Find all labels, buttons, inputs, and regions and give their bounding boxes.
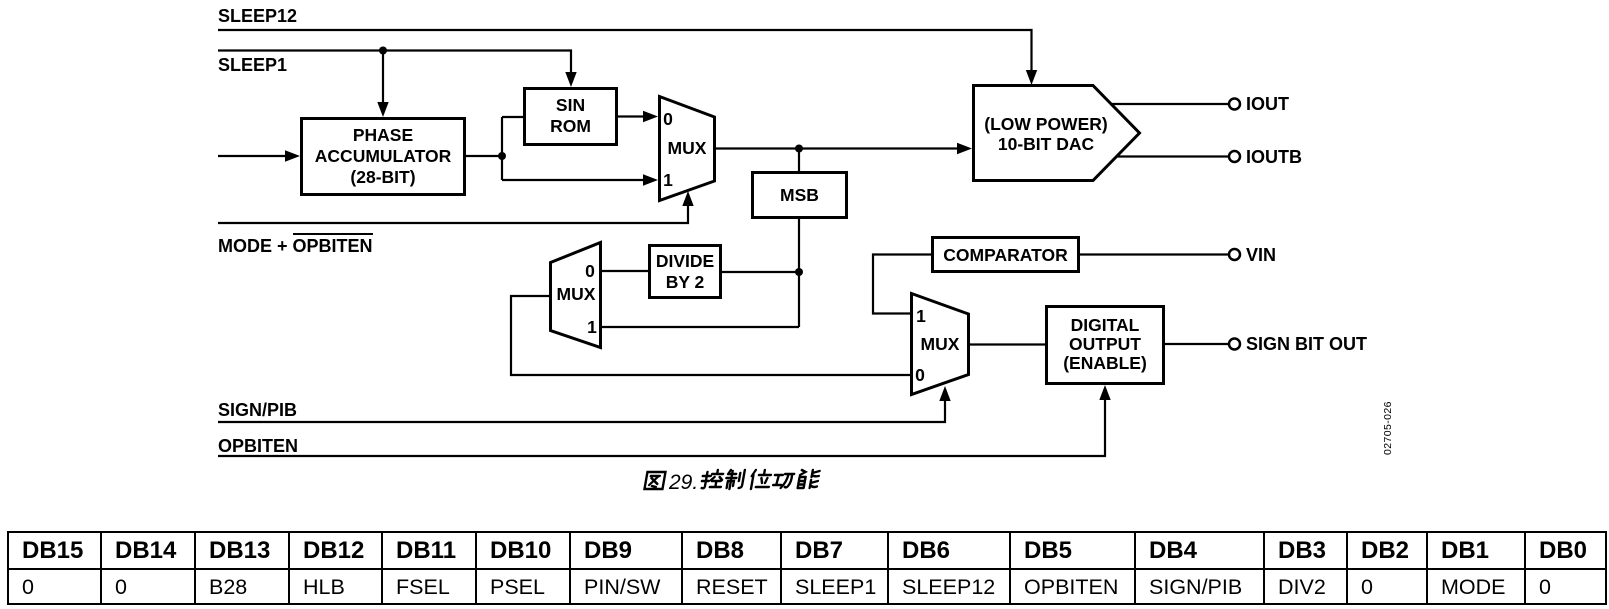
svg-text:MUX: MUX [668, 138, 707, 158]
wire bypass branch to MUX U1 input 1 [502, 179, 645, 181]
svg-text:1: 1 [663, 170, 673, 190]
terminal IOUTB [1229, 151, 1240, 162]
svg-text:SIGN/PIB: SIGN/PIB [218, 400, 297, 420]
svg-text:DIVIDE: DIVIDE [656, 251, 714, 271]
wire SLEEP12 net [218, 30, 1032, 72]
svg-text:0: 0 [663, 109, 673, 129]
svg-text:COMPARATOR: COMPARATOR [943, 245, 1068, 265]
DAC block U9 pentagon [974, 86, 1140, 181]
wire frequency-word input to phase accumulator [218, 155, 287, 157]
wire MUX U3 output to digital output block [969, 343, 1045, 345]
overline bar over OPBITEN [293, 233, 373, 235]
arrowhead into SIN ROM top [565, 72, 576, 87]
node junction on SLEEP1 net [379, 47, 387, 55]
op-amp U1 MUX trapezoid [660, 97, 715, 201]
digital output block U8 [1047, 307, 1164, 384]
wire MUX U2 output down to MUX U3 input 0 [511, 296, 910, 375]
svg-text:OUTPUT: OUTPUT [1069, 334, 1141, 354]
wire digital output to SIGN BIT OUT terminal [1164, 343, 1229, 345]
svg-text:ACCUMULATOR: ACCUMULATOR [315, 146, 452, 166]
arrowhead into phase accumulator top [377, 102, 388, 117]
MUX U3 trapezoid [912, 294, 969, 395]
MUX U2 trapezoid (mirrored) [551, 243, 601, 348]
svg-text:MUX: MUX [921, 334, 960, 354]
control word bit table [7, 531, 1607, 605]
arrowhead into phase accumulator left [285, 150, 300, 161]
wire phase accumulator output to junction [465, 155, 502, 157]
arrowhead into MUX U3 select [939, 386, 950, 401]
svg-text:02705-026: 02705-026 [1382, 401, 1394, 455]
terminal SIGN BIT OUT [1229, 339, 1240, 350]
wire MSB output down to divide-by-2 net [798, 218, 800, 327]
wire junction vertical riser [501, 117, 503, 180]
svg-text:(LOW POWER): (LOW POWER) [984, 114, 1107, 134]
node junction at phase accumulator output [498, 152, 506, 160]
svg-text:BY 2: BY 2 [666, 272, 705, 292]
wire SLEEP1 branch to phase accumulator [382, 51, 384, 104]
svg-text:0: 0 [915, 365, 925, 385]
arrowhead into MUX U1 input 0 [643, 111, 658, 122]
svg-text:SLEEP1: SLEEP1 [218, 55, 287, 75]
svg-text:29.: 29. [668, 471, 698, 494]
wire MSB direct branch to MUX U2 input 1 [601, 326, 799, 328]
svg-text:MSB: MSB [780, 185, 819, 205]
svg-text:OPBITEN: OPBITEN [218, 436, 298, 456]
svg-text:IOUT: IOUT [1246, 94, 1289, 114]
wire OPBITEN select net [218, 398, 1105, 456]
node junction at MSB tap [795, 145, 803, 153]
svg-text:MODE + OPBITEN: MODE + OPBITEN [218, 236, 373, 256]
svg-text:VIN: VIN [1246, 245, 1276, 265]
svg-text:1: 1 [916, 306, 926, 326]
wire SLEEP1 net [218, 51, 571, 74]
SIN ROM block U5 [525, 89, 617, 145]
svg-text:10-BIT DAC: 10-BIT DAC [998, 134, 1095, 154]
wire DAC to IOUTB terminal [1117, 155, 1229, 157]
caption 图29. 控制位功能 [644, 470, 819, 494]
arrowhead into MUX U1 input 1 [643, 174, 658, 185]
svg-text:PHASE: PHASE [353, 125, 413, 145]
wire into SIN ROM input [502, 116, 523, 118]
wire MUX U2 input 0 to divide-by-2 [601, 270, 648, 272]
svg-text:ROM: ROM [550, 116, 591, 136]
wire comparator output to MUX U3 input 1 [873, 255, 932, 314]
svg-text:MUX: MUX [557, 284, 596, 304]
arrowhead into digital output enable [1099, 385, 1110, 400]
divide-by-2 block U6 [650, 246, 721, 298]
svg-text:(28-BIT): (28-BIT) [350, 167, 415, 187]
phase accumulator block U4 [302, 119, 465, 195]
svg-text:SIN: SIN [556, 95, 585, 115]
svg-text:1: 1 [587, 317, 597, 337]
MSB block [753, 173, 847, 218]
wire MODE + OPBITEN select net [218, 204, 688, 223]
arrowhead into MUX U1 select [682, 191, 693, 206]
wire DAC to IOUT terminal [1112, 103, 1229, 105]
wire SIN ROM output to MUX U1 input 0 [617, 115, 645, 117]
node junction at divide-by-2 output [795, 268, 803, 276]
svg-text:0: 0 [585, 261, 595, 281]
svg-text:IOUTB: IOUTB [1246, 147, 1302, 167]
wire MSB tap vertical [798, 149, 800, 172]
wire comparator to VIN terminal [1079, 253, 1229, 255]
wire SIGN/PIB select net [218, 399, 945, 422]
svg-text:SLEEP12: SLEEP12 [218, 6, 297, 26]
wire MUX U1 output to DAC [715, 147, 959, 149]
arrowhead into DAC top [1026, 70, 1037, 85]
svg-text:DIGITAL: DIGITAL [1071, 315, 1140, 335]
comparator block U7 [933, 238, 1079, 272]
arrowhead into DAC left [957, 143, 972, 154]
wire divide-by-2 output to junction [721, 271, 799, 273]
svg-text:(ENABLE): (ENABLE) [1063, 353, 1147, 373]
terminal IOUT [1229, 99, 1240, 110]
svg-text:SIGN BIT OUT: SIGN BIT OUT [1246, 334, 1367, 354]
terminal VIN [1229, 249, 1240, 260]
